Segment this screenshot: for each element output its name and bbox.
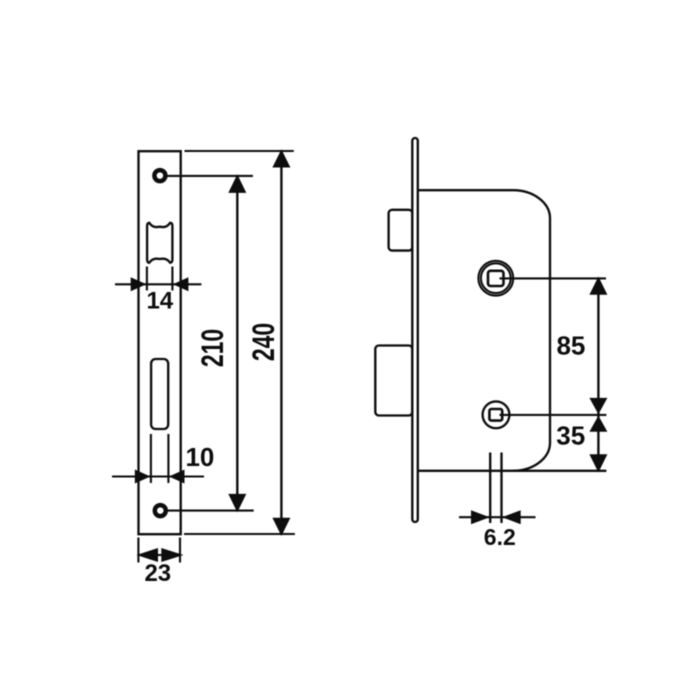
dimension 85 reference line bottom [500, 414, 607, 416]
dimension 23 extension lines [138, 538, 180, 563]
dimension 210 line [236, 176, 238, 511]
dimension 210 top arrow [228, 174, 246, 193]
lower spindle square [489, 409, 502, 421]
dimension 14 line [115, 283, 201, 285]
dimension 35 bottom arrow [589, 454, 607, 472]
svg-text:210: 210 [194, 329, 229, 367]
dimension 6.2 left arrow [471, 510, 490, 524]
dimension 210 bottom arrow [228, 494, 246, 513]
lock case bottom edge line [419, 470, 607, 472]
dimension 240 bottom arrow [272, 518, 290, 536]
faceplate front view outline [139, 151, 181, 534]
latch bolt cutout [147, 223, 172, 263]
handle spindle hole inner circle [481, 263, 511, 293]
dimension 210 reference line top [168, 175, 253, 177]
dimension 6.2 line [459, 516, 536, 518]
svg-text:6.2: 6.2 [484, 524, 516, 550]
dimension 10 left arrow [135, 470, 151, 484]
svg-text:35: 35 [556, 420, 585, 450]
dimension 240 line [280, 151, 282, 534]
dimension 14 right arrow [173, 277, 189, 291]
latch bolt side view [389, 210, 413, 251]
dimension 23 right arrow [161, 548, 183, 562]
dimension 35 line [597, 415, 599, 471]
handle spindle hole outer circle [478, 261, 513, 296]
svg-text:85: 85 [556, 331, 585, 361]
dimension 10 line [112, 475, 204, 477]
dimension 85 line [597, 278, 599, 415]
svg-text:10: 10 [185, 442, 214, 472]
dimension 23 line [138, 554, 181, 556]
dimension 85 top arrow [589, 277, 607, 295]
dimension 6.2 right arrow [502, 510, 521, 524]
lower spindle hole circle [483, 401, 510, 428]
dimension 85 reference line top [500, 277, 607, 279]
dimension 10 right arrow [169, 470, 185, 484]
handle spindle square [488, 271, 504, 286]
dimension 14 left arrow [131, 277, 147, 291]
faceplate edge view [412, 138, 418, 522]
follower spindle slot lines [490, 453, 501, 524]
deadbolt slot cutout [151, 359, 168, 429]
dimension 10 extension lines [151, 434, 169, 483]
deadbolt side view [375, 346, 412, 416]
dimension 240 reference line top [185, 150, 294, 152]
svg-text:14: 14 [146, 288, 173, 315]
dimension 14 extension lines [147, 267, 173, 291]
svg-text:240: 240 [246, 323, 281, 361]
dimension 210 reference line bottom [168, 510, 254, 512]
lock case body [419, 190, 550, 471]
top screw hole [154, 170, 165, 181]
dimension 85 bottom arrow [589, 398, 607, 414]
dimension 240 reference line bottom [184, 533, 295, 535]
dimension 240 top arrow [272, 149, 290, 167]
bottom screw hole [155, 505, 166, 516]
dimension 23 left arrow [137, 548, 159, 562]
svg-text:23: 23 [144, 560, 171, 587]
dimension 35 top arrow [589, 416, 607, 432]
